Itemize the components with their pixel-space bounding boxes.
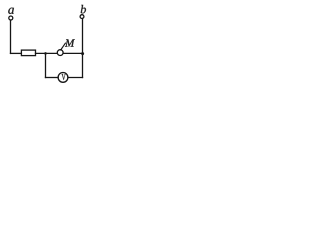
wire bottom left segment <box>46 77 59 79</box>
terminal b <box>80 15 84 19</box>
switch lever <box>61 43 66 50</box>
wire switch to right <box>63 52 82 54</box>
node b label <box>81 5 86 13</box>
wire bottom-left horizontal <box>11 52 22 54</box>
junction node left <box>44 52 47 55</box>
wire left vertical <box>10 20 12 53</box>
resistor R <box>21 50 35 56</box>
voltmeter letter V <box>62 74 66 80</box>
label M <box>65 39 75 46</box>
terminal a <box>9 16 13 20</box>
node a label <box>8 8 14 14</box>
voltmeter V <box>58 73 68 83</box>
junction node right <box>81 52 84 55</box>
wire bottom right segment <box>68 77 83 79</box>
wire right vertical <box>82 18 84 77</box>
switch contact circle <box>57 50 63 56</box>
wire resistor to switch <box>36 52 58 54</box>
wire branch down left <box>45 53 47 77</box>
